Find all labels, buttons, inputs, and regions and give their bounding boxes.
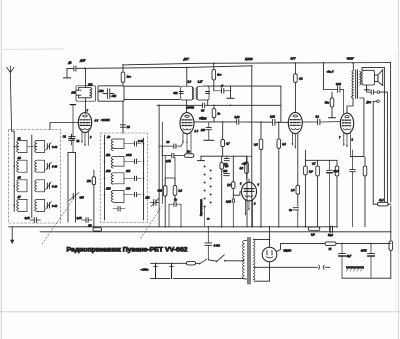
transformer power: [239, 238, 255, 285]
wire box2 left line: [104, 135, 106, 220]
svg-text:130: 130: [71, 92, 76, 95]
wire y160 stub: [304, 150, 306, 160]
capacitor 0,02 b: [273, 119, 275, 125]
wire grid V1: [50, 123, 78, 130]
svg-text:Радиоприемник Пуване-РЕТ VV-66: Радиоприемник Пуване-РЕТ VV-662: [67, 248, 189, 254]
resistor 250: [92, 170, 95, 227]
resistor 4,2: [294, 63, 298, 83]
wire speaker frame stub: [361, 67, 363, 70]
svg-text:4,7: 4,7: [312, 163, 316, 166]
capacitor 20,0 el: [327, 160, 333, 232]
wire secondary bottom: [254, 262, 269, 281]
chassis bar: [346, 266, 364, 271]
switch lever a: [196, 259, 207, 264]
resistor 75: [325, 242, 336, 246]
capacitor 4000: [205, 227, 212, 260]
svg-text:50,0: 50,0: [328, 234, 333, 237]
resistor 1,5 out: [335, 160, 339, 227]
resistor end vertical: [389, 241, 393, 250]
resistor 4,7 out: [316, 160, 322, 227]
node dots box2: [104, 143, 145, 195]
svg-text:Д17: Д17: [183, 57, 190, 61]
node drop T2: [186, 67, 188, 69]
svg-text:ЧВ5Г: ЧВ5Г: [347, 56, 355, 60]
capacitor 10,0 bus: [330, 226, 332, 233]
svg-text:Л5: Л5: [17, 177, 22, 180]
resistor 4,7 mid: [221, 122, 225, 156]
tube V5: [340, 113, 353, 134]
svg-text:Л15: Л15: [105, 188, 111, 191]
capacitor 0,51 v2: [162, 153, 184, 158]
bus chassis lower: [40, 231, 391, 233]
capacitor 0,1 v4: [303, 119, 341, 125]
wire x323 drop: [323, 63, 325, 90]
svg-text:1,0: 1,0: [282, 143, 286, 146]
svg-text:3-43: 3-43: [52, 185, 58, 188]
wire x162b: [161, 146, 163, 156]
transformer IF1b box: [98, 86, 124, 101]
switch contact dots column: [204, 165, 212, 207]
capacitor 30: [293, 208, 298, 227]
transformer IF1a box: [76, 86, 96, 101]
antenna: [7, 66, 14, 131]
ground bar y98: [227, 86, 234, 98]
coil-bank box 2 (dashed): [100, 133, 147, 223]
wire input drop: [66, 68, 68, 77]
node bus-x356: [352, 62, 354, 64]
wire box1 coil tops: [14, 146, 36, 148]
wire jack a right: [380, 92, 388, 202]
wire primary top: [240, 241, 244, 253]
resistor 1v+ top: [212, 63, 216, 91]
tuning gang dashed link a: [42, 198, 75, 245]
wire top bus B: [77, 66, 252, 69]
svg-text:≈12В: ≈12В: [200, 117, 207, 121]
capacitor 0,1 y156: [224, 156, 229, 161]
ground bar input: [63, 77, 70, 79]
wire pickup to bus: [204, 207, 206, 227]
svg-text:0,02: 0,02: [336, 83, 341, 86]
switch lever b: [208, 255, 244, 262]
resistor 0,5 bus: [308, 227, 320, 231]
svg-text:202: 202: [144, 196, 150, 199]
resistor 1,3: [296, 134, 300, 206]
capacitor 8: [214, 88, 231, 93]
resistor 1g: [212, 105, 216, 122]
wire x68 x75 verticals: [68, 152, 76, 222]
svg-text:0,1: 0,1: [316, 115, 320, 118]
svg-text:3-43: 3-43: [138, 140, 144, 143]
wire mid column: [31, 135, 33, 218]
wire heater y267: [254, 265, 330, 269]
svg-text:Д1: Д1: [67, 62, 72, 65]
svg-text:Звукосниматель: Звукосниматель: [201, 198, 203, 216]
capacitor 0,02 a: [237, 120, 239, 125]
wire drop T2: [186, 67, 188, 86]
pin arrows V4: [292, 143, 297, 149]
wire rectifier top to bus: [269, 227, 271, 240]
resistor 2,2: [173, 157, 177, 201]
svg-text:50о: 50о: [325, 102, 330, 105]
svg-text:302: 302: [173, 92, 178, 95]
wire corner to V3 grid: [233, 192, 241, 195]
capacitor 0,02 det: [232, 199, 234, 227]
coil L1: [14, 141, 27, 153]
trimmer 305: [69, 193, 79, 201]
svg-text:27о: 27о: [86, 180, 92, 183]
resistor 0,3: [220, 156, 223, 227]
capacitor C2 with top bar: [69, 105, 76, 153]
wire top input segment: [67, 67, 73, 69]
tube V1: [78, 113, 91, 133]
svg-text:-785: -785: [111, 95, 117, 98]
svg-text:0,51: 0,51: [166, 160, 171, 163]
wire V2 grid drop: [186, 100, 188, 113]
capacitor tone: [367, 85, 378, 94]
mains plug prongs: [154, 263, 174, 278]
coil L6 with trimmer: [35, 180, 52, 192]
capacitor 0,05 a: [30, 218, 41, 223]
tube V2: [180, 113, 194, 134]
transformer IF2 box L: [179, 86, 194, 100]
capacitor Cg: [169, 202, 181, 227]
svg-text:6,Р: 6,Р: [309, 171, 313, 174]
svg-text:-270В: -270В: [186, 106, 194, 110]
svg-text:1 2: 1 2: [195, 130, 199, 133]
capacitor 100 to ground: [204, 122, 214, 140]
svg-text:4,7: 4,7: [226, 143, 230, 146]
svg-text:1,2Г: 1,2Г: [198, 81, 203, 84]
node bus-x323: [323, 62, 325, 64]
svg-text:Л3: Л3: [17, 157, 22, 160]
resistor 7,5: [232, 156, 235, 199]
pin arrows V1: [81, 141, 86, 147]
resistor 1g horizontal: [185, 146, 194, 157]
wire IF2R down: [207, 100, 209, 105]
svg-text:1,3: 1,3: [291, 189, 295, 192]
node dots left column: [13, 146, 15, 207]
svg-text:40,Г: 40,Г: [347, 255, 352, 258]
wire x390 mid: [390, 206, 392, 241]
node dots chassis bus: [93, 226, 338, 228]
node dots B+: [341, 243, 372, 245]
node rect plate: [269, 239, 271, 241]
svg-text:1в+: 1в+: [217, 73, 222, 76]
capacitor 0,6 v2: [159, 143, 183, 148]
svg-text:877: 877: [291, 57, 296, 61]
wire V3 legs: [246, 200, 253, 227]
node 1v+: [213, 62, 215, 64]
svg-text:Л41: Л41: [87, 84, 93, 87]
resistor 1,0 agc: [277, 122, 281, 227]
wire V4 legs: [292, 133, 295, 147]
wire y86 right: [203, 85, 281, 87]
coil-bank box 1 (dashed): [9, 130, 61, 224]
capacitor 40,0 b: [368, 244, 375, 279]
wire x123 drop: [122, 101, 124, 133]
svg-text:1,0: 1,0: [188, 81, 192, 84]
wire corner y156 to x247: [247, 156, 252, 227]
svg-text:Л11: Л11: [105, 154, 111, 157]
svg-text:305: 305: [80, 197, 85, 200]
svg-text:100: 100: [201, 129, 206, 132]
pin arrows V2: [182, 141, 188, 145]
wire y178: [165, 177, 175, 179]
tube V6 rectifier: [262, 247, 277, 262]
node agc: [251, 65, 253, 67]
svg-text:ЛБ: ЛБ: [87, 224, 92, 227]
svg-text:0,3: 0,3: [225, 165, 229, 168]
node bus-x295: [295, 62, 297, 64]
capacitor 40,0 a: [339, 244, 346, 279]
fuse: [187, 262, 196, 265]
coil L15 with capacitors: [111, 190, 141, 211]
resistor out k: [363, 157, 367, 227]
svg-text:Л13: Л13: [105, 170, 111, 173]
bus bottom right: [342, 277, 391, 279]
tube V3: [242, 179, 257, 201]
capacitor KB: [120, 125, 125, 127]
svg-text:2в+: 2в+: [126, 76, 132, 79]
coil L13 with capacitor: [111, 173, 141, 184]
coil L5: [17, 180, 27, 192]
pin arrows V5: [343, 144, 348, 148]
coil L7: [17, 199, 27, 211]
svg-text:0,02: 0,02: [270, 116, 275, 119]
wire x281 drop: [280, 86, 282, 122]
capacitor 0,5 k: [350, 150, 356, 227]
svg-text:0,5: 0,5: [311, 233, 315, 236]
svg-text:41,7: 41,7: [379, 199, 384, 202]
trimmer 202: [150, 199, 159, 207]
coil L8 with trimmer: [35, 199, 52, 211]
tube V4: [288, 112, 302, 133]
wire speaker return: [350, 98, 364, 157]
capacitor C5: [203, 103, 205, 108]
node bus-tube1: [84, 67, 86, 69]
wire y99.4: [124, 98, 180, 100]
coil L4 with trimmer: [35, 160, 52, 172]
resistor 0,5 agc: [259, 122, 263, 227]
wire AGC x252: [251, 66, 253, 227]
coil L2 with trimmer: [35, 141, 52, 153]
svg-text:-2в,4: -2в,4: [326, 69, 333, 73]
svg-text:1400: 1400: [126, 154, 132, 157]
svg-text:0,5: 0,5: [254, 143, 258, 146]
capacitor C1 0,47: [74, 66, 76, 71]
svg-text:Д47: Д47: [79, 59, 86, 63]
wire B+: [277, 244, 391, 252]
svg-text:400: 400: [223, 170, 228, 173]
svg-text:Дин: Дин: [366, 101, 372, 104]
svg-text:0,02: 0,02: [226, 200, 231, 203]
wire rectifier plate: [254, 240, 269, 248]
wire y156: [201, 155, 247, 157]
speaker frame wire: [362, 67, 384, 202]
wire x390 low: [390, 250, 392, 278]
wire V2 legs: [183, 133, 191, 154]
wire V5 legs: [344, 133, 351, 156]
svg-text:40ТК: 40ТК: [361, 250, 367, 253]
speaker: [362, 70, 383, 90]
wire mains top: [151, 262, 187, 264]
tuning gang dashed link b: [141, 207, 162, 239]
svg-text:Л9: Л9: [106, 136, 111, 139]
wire mains bottom: [151, 278, 245, 280]
coil L3: [17, 160, 27, 172]
capacitor C1 34 between boxes: [69, 134, 75, 145]
svg-text:~120в: ~120в: [140, 267, 149, 271]
resistor 4,0 det: [245, 156, 249, 179]
svg-text:≈100В: ≈100В: [101, 118, 110, 122]
wire y105: [157, 104, 281, 106]
svg-text:4,0: 4,0: [240, 167, 244, 170]
node bus-x123: [122, 64, 124, 66]
wire V5 anode: [347, 98, 353, 113]
resistor 6,8: [304, 160, 308, 227]
svg-text:4 000: 4 000: [214, 244, 221, 247]
svg-text:3-43: 3-43: [52, 205, 58, 208]
resistor 300: [163, 156, 167, 227]
wire x162: [161, 122, 163, 204]
svg-text:Л49: Л49: [98, 90, 104, 93]
wire top bus A: [123, 63, 391, 65]
svg-text:0,02: 0,02: [235, 116, 240, 119]
bus chassis upper: [9, 226, 337, 228]
capacitor 0,02 out: [324, 87, 344, 114]
svg-text:170: 170: [126, 188, 131, 191]
svg-text:3-43: 3-43: [52, 146, 58, 149]
ground arrow earth: [10, 227, 14, 244]
wire box2 right line: [143, 138, 145, 220]
wire bus end drop: [390, 63, 392, 202]
wire y122: [194, 121, 288, 123]
svg-text:0,05: 0,05: [77, 217, 82, 220]
wire left column: [13, 131, 15, 211]
svg-text:ЦЕ52: ЦЕ52: [245, 57, 253, 61]
pin arrows V3: [245, 208, 250, 216]
svg-text:30Б: 30Б: [158, 190, 163, 193]
resistor 41,7: [373, 202, 391, 206]
svg-text:7,5: 7,5: [227, 184, 231, 187]
terminal jack b: [377, 100, 380, 103]
svg-text:4,2: 4,2: [299, 78, 303, 81]
wire V4 top: [294, 83, 296, 113]
svg-text:2,2: 2,2: [178, 190, 183, 193]
coil L9 with capacitor: [111, 139, 141, 150]
transformer output: [352, 63, 362, 99]
svg-text:4 5: 4 5: [95, 120, 99, 123]
svg-text:3-43: 3-43: [52, 166, 58, 169]
resistor 0,2 top: [121, 65, 125, 86]
wire V1 legs: [82, 132, 88, 146]
svg-text:0,05: 0,05: [25, 217, 30, 220]
capacitor 0,05 b: [82, 218, 92, 223]
capacitor 400: [224, 174, 230, 176]
svg-text:285: 285: [125, 170, 131, 173]
svg-text:Л7: Л7: [17, 196, 22, 199]
coil L-IF1a with capacitor: [76, 68, 91, 113]
coil L11 with capacitor: [111, 157, 141, 168]
node y122 dots: [158, 105, 279, 123]
wire jack b down: [373, 101, 377, 204]
wire y160 output row: [305, 159, 337, 161]
wire x159: [158, 105, 160, 227]
svg-text:5Ц4С: 5Ц4С: [284, 248, 293, 252]
wire y86 left: [124, 85, 180, 87]
transformer IF2 box R: [196, 86, 210, 100]
ground bar y160: [198, 156, 205, 160]
svg-text:20,0: 20,0: [333, 170, 339, 173]
resistor LB on bus: [93, 228, 102, 231]
terminal jack a: [377, 91, 380, 94]
resistor 500: [330, 92, 334, 118]
ground bar 500: [328, 117, 335, 119]
svg-text:Л1: Л1: [17, 137, 22, 140]
